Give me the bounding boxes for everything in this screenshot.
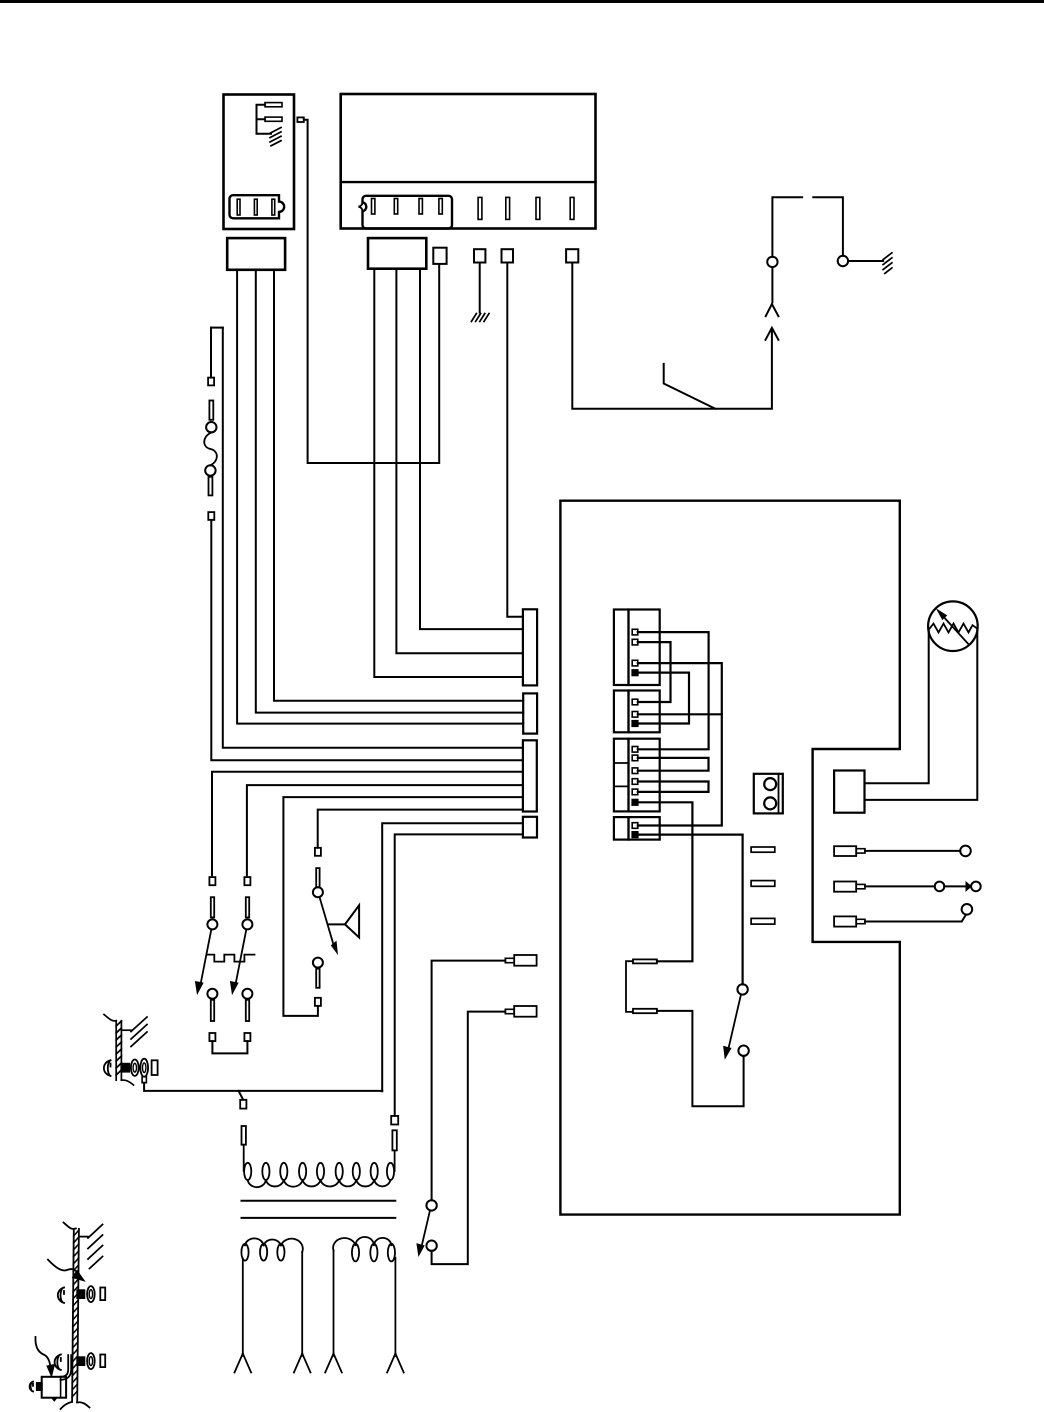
wire bar B3 pin3 to switch SW2 — [212, 772, 523, 876]
pin slot P6 — [506, 197, 510, 219]
F1 terminal a — [208, 378, 214, 386]
bolt BT2 head — [58, 1288, 64, 1303]
SW3 lower circle — [242, 989, 252, 999]
switch SW2 terminal top — [209, 877, 215, 885]
wire bar B4 pin1 to chassis wire — [382, 823, 523, 1091]
connector chevron upper — [766, 304, 779, 316]
wire RT1 to bar B4 pin1 — [144, 1083, 382, 1091]
K3 pin 6 — [632, 799, 638, 805]
nut N3 — [100, 1355, 105, 1368]
ground hatch on PNL2 — [79, 1225, 103, 1269]
SW4 arrowhead — [332, 942, 338, 954]
arrow E2 to E3 — [944, 885, 966, 887]
sensor body box — [42, 1377, 66, 1398]
sensor bolt nut — [37, 1383, 42, 1390]
SW3 pivot circle — [242, 919, 252, 929]
bolt BT3 head — [55, 1355, 61, 1370]
ring terminal RT1 — [140, 1059, 148, 1077]
transformer core — [242, 1201, 396, 1218]
switch SW5 upper circle — [737, 984, 747, 994]
jumper K3p2-K3p3 — [638, 758, 709, 771]
wire T2 to ground — [479, 263, 481, 313]
fusible link F1 top cap — [211, 327, 223, 329]
SW3 blade arm — [236, 930, 246, 983]
secondary winding L3 — [333, 1237, 395, 1356]
K4 pin 1 — [632, 823, 638, 829]
grommet block GR1 — [754, 774, 783, 814]
relay stack K4 body — [614, 817, 629, 840]
main harness box outline — [560, 501, 899, 1215]
jumper wire SW2 to SW3 bottoms — [212, 1041, 247, 1053]
wire bar B3 pin6 to switch SW4 upper — [318, 810, 523, 848]
wire CB2-a to bar B1 — [374, 269, 523, 677]
F1 ball b — [205, 465, 215, 475]
SW4 lower circle — [313, 958, 323, 968]
wire F1 upper lead — [210, 328, 212, 378]
K1 pin 3 — [632, 660, 638, 666]
SW3 terminal bottom — [244, 1033, 250, 1041]
K3 pin 4 — [632, 779, 638, 785]
SW2 terminal bottom — [209, 1033, 215, 1041]
nut N2 — [100, 1288, 105, 1301]
wire K4p2 to switch SW5 — [638, 835, 743, 985]
callout leader A1 — [48, 1260, 79, 1274]
K2 pin 1 — [632, 699, 638, 705]
F1 cap b — [209, 477, 213, 496]
SW4 blade arm — [320, 897, 334, 946]
callout arrowhead A2 — [47, 1365, 55, 1377]
wire JB1 to rheostat left — [865, 629, 929, 783]
wire PG2 to switch SW6 lower — [432, 1012, 506, 1265]
SW4 cap bottom — [316, 969, 319, 988]
relay stack K3 body — [614, 739, 629, 812]
nut N1 — [152, 1060, 158, 1075]
wire K3p6 to terminal TB1 — [638, 802, 692, 961]
net K1p2-K2p1 — [638, 642, 671, 702]
GR1 hole 1 — [764, 778, 776, 790]
bolt BT3 nut — [77, 1357, 84, 1365]
SW2 lower circle — [207, 989, 217, 999]
connector chevron lower — [766, 328, 779, 340]
K4 pin 2 — [632, 832, 638, 838]
secondary winding L2 — [241, 1238, 302, 1356]
K2 pin 2 — [632, 712, 638, 718]
wire CB1-b to bar B2 — [256, 270, 523, 713]
ring terminal RT3 — [87, 1353, 95, 1369]
SW4 terminal bottom — [315, 998, 321, 1006]
eyelet E1 — [960, 846, 971, 857]
connector block CB2 — [368, 238, 426, 269]
wire bar B4 pin2 to coil T5 — [395, 834, 523, 1116]
L2 lead fork a — [235, 1354, 252, 1373]
connector bracket — [626, 961, 633, 1012]
connector J1 on U1 — [230, 195, 285, 218]
wire BP1 to eyelet E1 — [865, 850, 960, 852]
module U1 box — [224, 95, 295, 230]
terminal T1 — [433, 248, 446, 264]
switch terminal circle SW1b — [838, 256, 848, 266]
header bar — [0, 0, 1044, 3]
SW4 detent pointer line — [329, 923, 345, 925]
switch SW6 upper circle — [426, 1200, 436, 1210]
SW4 cap top — [316, 868, 319, 887]
SW5 arrowhead — [724, 1046, 731, 1058]
wire SW1a up and over — [772, 197, 802, 257]
callout arrowhead A1 — [73, 1271, 85, 1282]
terminal T4 — [566, 249, 578, 262]
eyelet E2 — [935, 882, 945, 892]
R1 resistive element — [929, 624, 976, 633]
harness bar B2 — [523, 693, 537, 733]
wire CB2-c to bar B1 — [420, 269, 523, 629]
ring terminal RT2 — [87, 1286, 95, 1302]
SW3 arrowhead — [231, 982, 238, 994]
wire U1 nub to node T1 — [304, 120, 439, 463]
SW4 pivot circle — [313, 887, 323, 897]
terminal T3 — [502, 249, 514, 262]
chassis panel PNL1 — [104, 1015, 134, 1086]
wire T3 to bar B1 top — [507, 263, 523, 617]
blade slot SL2 — [751, 881, 775, 887]
eyelet E3 — [971, 882, 981, 892]
relay stack K1 body — [614, 610, 629, 686]
SW2 cap top — [211, 897, 214, 917]
terminal nub on U1 right — [297, 117, 303, 122]
fuse element symbol inside U1 — [257, 103, 283, 146]
bulkhead plug BP1 — [834, 846, 856, 856]
R1 wiper arrow — [942, 615, 969, 645]
net K1p4-K2p3 — [638, 673, 689, 724]
SW4 detent triangle — [345, 905, 359, 937]
connector block CB1 — [227, 238, 285, 270]
net K1p3-K4p1 — [638, 663, 722, 825]
L3 lead fork a — [325, 1354, 342, 1373]
plug PG1 — [514, 955, 536, 966]
K3 pin 2 — [632, 755, 638, 761]
K1 pin 2 — [632, 639, 638, 645]
L2 lead fork b — [294, 1354, 311, 1373]
K2 pin 3 — [632, 720, 638, 726]
terminal T2 — [474, 249, 485, 262]
wire right segment to SW1b — [813, 197, 843, 256]
ground G2 — [883, 253, 892, 274]
net K2p2 tap — [638, 713, 722, 715]
pin slot P5 — [478, 197, 482, 219]
bracket strap — [61, 1355, 72, 1380]
wire F1 to bar B3 pin2 — [211, 520, 523, 760]
callout leader A2 — [35, 1337, 50, 1368]
blade slot SL3 — [751, 918, 775, 924]
bolt BT1 head — [104, 1060, 111, 1076]
switch SW4 terminal top — [315, 848, 321, 856]
blade slot SL1 — [751, 847, 775, 852]
eyelet E4 — [962, 904, 973, 915]
wire BP3 to eyelet E4 — [865, 915, 966, 922]
wire TB2 to switch SW5 lower — [657, 1011, 744, 1106]
net K1p1-K3p1 — [638, 632, 709, 749]
SW2 blade arm — [201, 930, 211, 983]
F1 cap a — [209, 401, 213, 420]
wire chevron upper to switch circle — [771, 267, 773, 302]
module U2 box — [341, 94, 596, 229]
jumper K3p4-K3p5 — [638, 782, 709, 792]
ground G1 — [471, 314, 489, 322]
F1 wave element — [204, 432, 217, 465]
switch SW3 terminal top — [244, 877, 250, 885]
K3 pin 3 — [632, 768, 638, 774]
SW5 lower circle — [738, 1046, 748, 1056]
switch terminal circle SW1a — [767, 257, 777, 267]
sensor bolt head — [30, 1382, 33, 1392]
switch blade S1 — [664, 364, 716, 409]
wire bar B3 pin5 to switch SW4 lower — [283, 797, 523, 1016]
harness bar B1 — [523, 609, 537, 685]
connector J2 on U2 — [358, 196, 452, 229]
SW6 blade arm — [422, 1210, 430, 1245]
GR1 hole 2 — [764, 797, 776, 809]
terminal blade TB2 — [633, 1009, 657, 1013]
F1 ball a — [206, 422, 216, 432]
K1 pin 4 — [632, 670, 638, 676]
PNL2 hatching — [72, 1230, 79, 1397]
sensor box inner line — [60, 1377, 62, 1398]
SW5 blade arm — [729, 994, 742, 1048]
wire bar B3 pin4 to switch SW3 — [247, 785, 523, 875]
bolt BT1 nut — [121, 1064, 129, 1072]
ground hatch on PNL1 — [121, 1017, 147, 1047]
F1 terminal b — [208, 512, 214, 520]
bulkhead plug BP2 — [834, 882, 856, 892]
terminal blade TB1 — [633, 959, 657, 963]
SW6 arrowhead — [417, 1244, 424, 1256]
bulkhead plug BP3 — [834, 916, 856, 926]
wire PG1 to switch SW6 upper — [432, 961, 506, 1201]
K3 pin 5 — [632, 789, 638, 795]
wire F1 bypass to bar B3 pin1 — [223, 328, 523, 748]
coil cap T5 — [392, 1130, 396, 1150]
coil terminal T5 — [391, 1116, 398, 1125]
U2 divider — [341, 181, 596, 183]
SW3 cap top — [246, 897, 249, 917]
wire CB2-b to bar B1 — [396, 269, 523, 654]
wire BP2 to eyelet E2 — [865, 885, 935, 887]
bolt BT2 nut — [77, 1290, 84, 1298]
pin slot P8 — [570, 197, 574, 219]
SW3 cap bottom — [246, 1000, 249, 1021]
gang coupling link SW2-SW3 — [207, 955, 255, 962]
washer W1 — [131, 1060, 139, 1076]
L3 lead fork b — [387, 1354, 404, 1373]
junction box JB1 — [834, 771, 864, 813]
wire JB1 to rheostat right — [865, 628, 978, 800]
wire SW1b to ground — [848, 260, 883, 262]
SW2 pivot circle — [207, 919, 217, 929]
wire CB1-c to bar B2 — [237, 270, 523, 724]
K1 pin 1 — [632, 629, 638, 635]
K3 cell dividers — [614, 763, 629, 786]
plug PG2 — [514, 1006, 536, 1017]
GR1 inner line — [778, 774, 780, 814]
fuel sender rheostat R1 — [928, 601, 978, 651]
wire CB1-a to bar B2 — [274, 270, 523, 701]
K3 pin 1 — [632, 747, 638, 753]
wire T4 to connector arrow — [572, 263, 772, 409]
coil terminal T6 — [240, 1100, 246, 1109]
pin slot P7 — [536, 197, 540, 219]
RT1 lug — [142, 1077, 146, 1083]
harness bar B3 — [523, 740, 537, 811]
SW6 lower circle — [426, 1241, 436, 1251]
coil cap T6 — [242, 1126, 246, 1145]
chassis panel PNL2 — [61, 1223, 90, 1410]
stub wire to coil terminal — [239, 1091, 244, 1100]
SW2 cap bottom — [211, 1000, 214, 1021]
SW2 arrowhead — [196, 982, 203, 994]
relay stack K2 body — [614, 691, 629, 733]
harness bar B4 — [523, 817, 537, 838]
sensor drip mark — [52, 1398, 58, 1402]
primary winding L1 — [244, 1145, 395, 1187]
